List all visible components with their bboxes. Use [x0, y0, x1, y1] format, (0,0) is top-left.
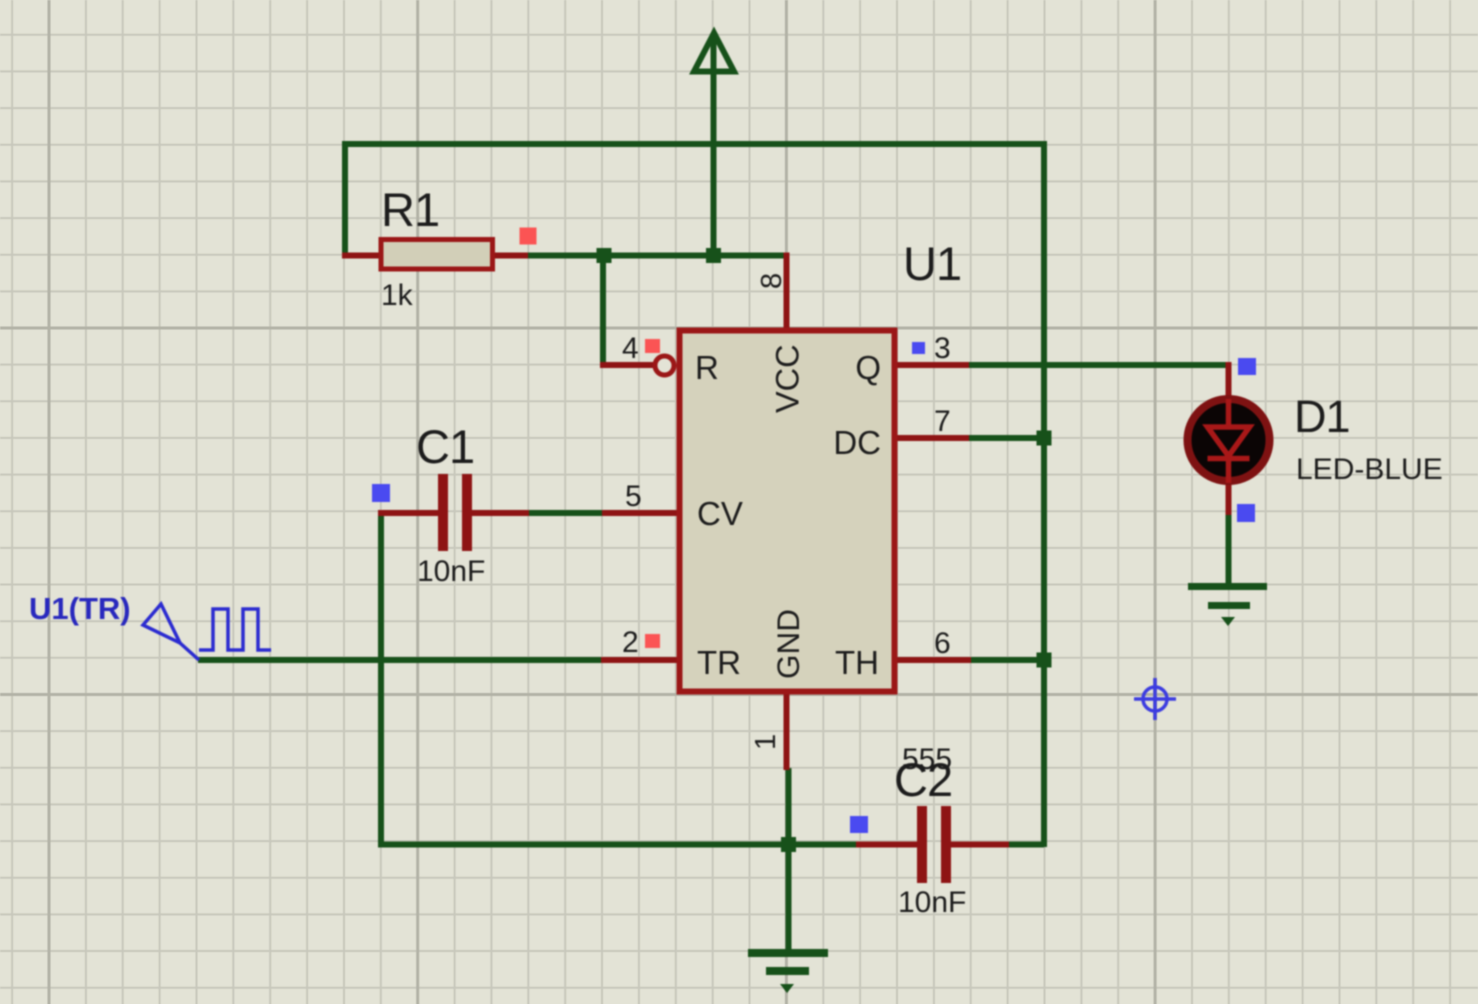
- svg-text:6: 6: [934, 627, 951, 660]
- svg-text:3: 3: [934, 332, 951, 365]
- svg-text:DC: DC: [833, 424, 881, 461]
- svg-text:LED-BLUE: LED-BLUE: [1296, 453, 1443, 486]
- svg-text:7: 7: [934, 405, 951, 438]
- svg-text:1: 1: [750, 734, 782, 750]
- svg-text:4: 4: [622, 332, 639, 365]
- svg-text:8: 8: [756, 273, 788, 289]
- svg-text:C2: C2: [894, 753, 952, 806]
- svg-text:C1: C1: [416, 420, 474, 473]
- svg-text:CV: CV: [697, 495, 743, 532]
- svg-text:U1: U1: [903, 237, 961, 290]
- svg-text:U1(TR): U1(TR): [29, 591, 131, 626]
- svg-text:TR: TR: [697, 644, 741, 681]
- svg-text:D1: D1: [1294, 391, 1350, 442]
- svg-text:R1: R1: [381, 183, 439, 236]
- svg-text:5: 5: [625, 480, 642, 513]
- svg-text:R: R: [695, 349, 719, 386]
- svg-text:10nF: 10nF: [417, 555, 485, 588]
- svg-text:GND: GND: [770, 609, 806, 679]
- svg-text:2: 2: [622, 626, 639, 659]
- svg-text:Q: Q: [855, 349, 881, 386]
- svg-text:10nF: 10nF: [898, 886, 966, 919]
- svg-text:VCC: VCC: [770, 344, 806, 413]
- svg-text:1k: 1k: [381, 279, 414, 312]
- svg-text:TH: TH: [835, 644, 879, 681]
